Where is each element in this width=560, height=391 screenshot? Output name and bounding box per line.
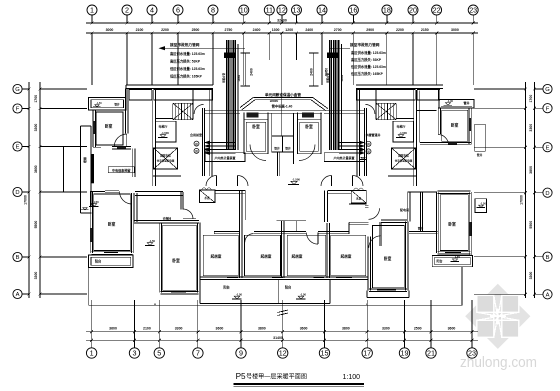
svg-text:合用前室: 合用前室 [190, 132, 202, 137]
svg-text:1: 1 [90, 6, 94, 15]
svg-text:2400: 2400 [253, 28, 261, 32]
svg-text:低区供水流量: 125.63m: 低区供水流量: 125.63m [169, 66, 205, 71]
entry double doors [206, 176, 363, 187]
svg-text:户内热计量装置: 户内热计量装置 [332, 155, 354, 160]
svg-text:管井: 管井 [273, 147, 280, 151]
svg-text:卧室: 卧室 [108, 222, 116, 227]
svg-text:-1.50: -1.50 [96, 103, 102, 105]
svg-text:-1.50: -1.50 [149, 239, 156, 243]
svg-text:采暖立管: 采暖立管 [221, 73, 225, 85]
svg-text:起居室: 起居室 [210, 254, 222, 259]
svg-text:2150: 2150 [421, 28, 429, 32]
svg-text:19: 19 [401, 349, 409, 358]
svg-text:2: 2 [125, 6, 129, 15]
svg-text:3600: 3600 [109, 326, 117, 330]
svg-text:低区压力损失: 165KP: 低区压力损失: 165KP [350, 71, 384, 76]
svg-text:1: 1 [90, 349, 94, 358]
svg-text:配电间: 配电间 [400, 207, 409, 212]
svg-text:10: 10 [240, 6, 248, 15]
svg-text:国家电信: 国家电信 [160, 154, 171, 158]
stair core left wall [153, 89, 417, 186]
svg-text:起居室: 起居室 [260, 254, 272, 259]
svg-text:13: 13 [293, 6, 301, 15]
svg-text:21: 21 [427, 349, 435, 358]
svg-text:楼梯: 楼梯 [82, 157, 87, 163]
vertical dim 2400 left [241, 53, 254, 86]
bedroom top-left [93, 89, 131, 149]
svg-text:电梯厅: 电梯厅 [396, 124, 405, 129]
heat meter label box right [324, 153, 364, 162]
svg-text:-1.500: -1.500 [292, 178, 300, 182]
right grid bubbles and dimension band [474, 82, 552, 299]
svg-text:5500: 5500 [34, 221, 38, 229]
svg-text:2100: 2100 [143, 326, 151, 330]
svg-text:B: B [16, 255, 20, 261]
svg-text:3300: 3300 [34, 124, 38, 132]
svg-text:A: A [546, 292, 550, 298]
svg-text:2400: 2400 [309, 68, 313, 76]
svg-text:高区供水流量: 125.63m: 高区供水流量: 125.63m [351, 50, 386, 55]
svg-text:DN50: DN50 [341, 74, 344, 81]
svg-text:卧室: 卧室 [172, 258, 180, 263]
right annotation text block [329, 42, 386, 76]
svg-text:3000: 3000 [451, 28, 459, 32]
svg-text:3800: 3800 [258, 326, 266, 330]
heat meter label box left [205, 153, 245, 162]
right edge shaft protrusion upper [475, 124, 486, 151]
svg-text:起居室: 起居室 [291, 254, 303, 259]
balcony top-right [439, 99, 474, 108]
watermark logo diamond [465, 284, 530, 349]
svg-text:水表: 水表 [356, 197, 362, 201]
svg-text:采暖立管: 采暖立管 [325, 73, 329, 85]
svg-text:G: G [545, 87, 550, 93]
svg-text:3300: 3300 [382, 326, 390, 330]
svg-text:E: E [16, 145, 20, 151]
svg-text:2700: 2700 [334, 28, 342, 32]
svg-text:管井: 管井 [204, 147, 208, 153]
svg-text:12: 12 [279, 349, 287, 358]
svg-text:3300: 3300 [529, 272, 533, 280]
svg-text:17000: 17000 [520, 195, 524, 205]
svg-text:F: F [16, 107, 20, 113]
svg-text:高区压力损失: 53KP: 高区压力损失: 53KP [170, 59, 201, 64]
room inner outlines [94, 110, 468, 290]
svg-text:供: 供 [366, 142, 370, 146]
svg-text:2500: 2500 [414, 326, 422, 330]
svg-text:4: 4 [150, 6, 154, 15]
top grid bubbles and dimension band [86, 5, 478, 136]
svg-text:3800: 3800 [34, 165, 38, 173]
svg-text:卧室: 卧室 [305, 124, 313, 129]
svg-text:22: 22 [433, 6, 441, 15]
right core (mirrored) [413, 90, 415, 186]
svg-text:2750: 2750 [225, 28, 233, 32]
svg-text:-1.50: -1.50 [480, 202, 486, 205]
svg-text:9: 9 [239, 349, 243, 358]
svg-text:低区供水流量: 125.63m: 低区供水流量: 125.63m [350, 64, 386, 69]
svg-text:阳台: 阳台 [436, 258, 442, 263]
exterior canopy line left [63, 147, 65, 193]
svg-text:3800: 3800 [529, 166, 533, 174]
svg-text:2400: 2400 [305, 28, 313, 32]
svg-text:卧室: 卧室 [448, 222, 456, 227]
svg-text:卧室: 卧室 [252, 124, 260, 129]
svg-text:23: 23 [468, 349, 476, 358]
svg-text:-1.50: -1.50 [236, 292, 243, 296]
svg-text:3300: 3300 [175, 326, 183, 330]
svg-text:23: 23 [469, 6, 477, 15]
svg-text:DN50: DN50 [238, 74, 241, 81]
svg-text:18: 18 [383, 6, 391, 15]
svg-text:管井: 管井 [114, 103, 120, 107]
svg-text:14: 14 [318, 6, 326, 15]
svg-text:G: G [15, 87, 20, 93]
building top wall [126, 85, 443, 100]
svg-text:1200: 1200 [285, 28, 293, 32]
svg-text:国家电信: 国家电信 [398, 154, 409, 158]
svg-text:E: E [546, 145, 550, 151]
svg-text:1:100: 1:100 [343, 374, 361, 381]
svg-text:-1.50: -1.50 [454, 255, 460, 259]
svg-text:卧室: 卧室 [384, 256, 392, 261]
svg-text:-1.500: -1.500 [399, 131, 407, 135]
svg-text:水表: 水表 [204, 196, 210, 200]
svg-text:户内热计量装置: 户内热计量装置 [213, 155, 235, 160]
svg-text:接至市政热力管网: 接至市政热力管网 [349, 42, 380, 47]
svg-text:单元间敷设保温小金管: 单元间敷设保温小金管 [265, 92, 301, 97]
lower unit walls [81, 188, 473, 305]
svg-text:1300: 1300 [272, 28, 280, 32]
svg-text:住宅信息配电箱: 住宅信息配电箱 [157, 159, 175, 163]
svg-text:管中标高-1.40: 管中标高-1.40 [272, 104, 293, 109]
left pipe riser bundle [204, 40, 241, 155]
corridor left protrusion [81, 126, 94, 213]
svg-text:住宅信息配电箱: 住宅信息配电箱 [395, 159, 413, 163]
svg-text:水暖管道井: 水暖管道井 [365, 132, 380, 137]
hall wall below bedroom TL [132, 149, 134, 177]
left grid bubbles and dimension band [13, 82, 87, 299]
svg-text:3: 3 [133, 349, 137, 358]
svg-text:高区压力损失: 53KP: 高区压力损失: 53KP [351, 57, 382, 62]
svg-text:17000: 17000 [24, 195, 28, 205]
svg-text:高区供水流量: 125.63m: 高区供水流量: 125.63m [170, 51, 205, 56]
svg-text:管井: 管井 [476, 153, 483, 157]
radiators upper [90, 112, 472, 242]
svg-text:阳台: 阳台 [285, 285, 292, 290]
svg-text:2100: 2100 [136, 28, 144, 32]
svg-text:7: 7 [196, 349, 200, 358]
svg-text:5500: 5500 [529, 221, 533, 229]
right pipe riser bundle [325, 40, 365, 155]
svg-text:15: 15 [321, 349, 329, 358]
svg-text:11: 11 [266, 6, 273, 15]
vertical dim 2400 right [309, 53, 328, 86]
svg-text:16: 16 [349, 6, 357, 15]
svg-text:低区压力损失: 165KP: 低区压力损失: 165KP [169, 74, 203, 79]
svg-text:3600: 3600 [300, 326, 308, 330]
svg-text:3800: 3800 [342, 326, 350, 330]
balcony top-left [89, 98, 127, 111]
svg-text:2200: 2200 [396, 28, 404, 32]
inner rooms top band [204, 110, 365, 176]
svg-text:D: D [545, 191, 549, 197]
svg-text:3600: 3600 [448, 326, 456, 330]
svg-text:B: B [546, 255, 550, 261]
svg-text:号楼甲—层采暖平面图: 号楼甲—层采暖平面图 [246, 373, 307, 381]
svg-text:31400: 31400 [273, 336, 283, 340]
svg-text:32400: 32400 [277, 18, 287, 22]
core labels [157, 124, 413, 163]
svg-text:3000: 3000 [106, 28, 114, 32]
svg-text:DN50: DN50 [270, 99, 279, 103]
right edge shaft protrusion lower [475, 199, 487, 213]
svg-text:2400: 2400 [249, 68, 253, 76]
svg-text:管井: 管井 [359, 147, 363, 153]
svg-text:-1.500: -1.500 [161, 131, 169, 135]
svg-text:8: 8 [211, 6, 215, 15]
svg-text:管井: 管井 [417, 227, 424, 231]
title block [233, 372, 364, 387]
svg-text:管井: 管井 [284, 147, 291, 151]
svg-text:起居室: 起居室 [340, 254, 352, 259]
svg-text:6: 6 [176, 6, 180, 15]
svg-text:2500: 2500 [192, 28, 200, 32]
svg-text:-1.50: -1.50 [300, 292, 307, 296]
svg-text:2200: 2200 [161, 28, 169, 32]
inter-unit buried pipe route [240, 92, 328, 111]
svg-text:管井: 管井 [463, 100, 469, 105]
svg-text:3600: 3600 [216, 326, 224, 330]
center hall elevation marker [291, 181, 297, 184]
svg-text:-1.40: -1.40 [447, 99, 453, 103]
svg-text:接至市政热力管网: 接至市政热力管网 [169, 42, 200, 47]
riser connection circles [194, 141, 371, 154]
box 中电信息预留 [108, 167, 134, 173]
svg-text:供: 供 [194, 142, 198, 146]
svg-text:1700: 1700 [529, 95, 533, 103]
svg-text:电梯厅: 电梯厅 [158, 124, 167, 129]
svg-text:F: F [546, 106, 550, 112]
svg-text:1.50: 1.50 [93, 200, 99, 204]
svg-text:2900: 2900 [366, 28, 374, 32]
svg-text:3300: 3300 [529, 124, 533, 132]
bedroom top-right [417, 91, 472, 146]
svg-text:P5: P5 [236, 372, 246, 381]
svg-text:阳台: 阳台 [223, 285, 230, 290]
svg-text:12: 12 [278, 6, 286, 15]
svg-text:D: D [15, 190, 19, 196]
svg-text:卧室: 卧室 [451, 123, 459, 128]
left core [152, 90, 154, 186]
svg-text:衣帽间: 衣帽间 [163, 216, 172, 220]
left annotation text block [159, 42, 246, 79]
svg-text:中电信息预留: 中电信息预留 [112, 168, 131, 173]
svg-text:阳台: 阳台 [95, 259, 102, 264]
svg-text:3300: 3300 [34, 272, 38, 280]
svg-text:1700: 1700 [34, 95, 38, 103]
svg-text:卧室: 卧室 [105, 124, 113, 129]
bottom grid bubbles and dimension band [86, 300, 478, 358]
svg-text:A: A [16, 292, 20, 298]
svg-text:20: 20 [409, 6, 417, 15]
svg-text:5: 5 [157, 349, 161, 358]
svg-text:17: 17 [363, 349, 371, 358]
